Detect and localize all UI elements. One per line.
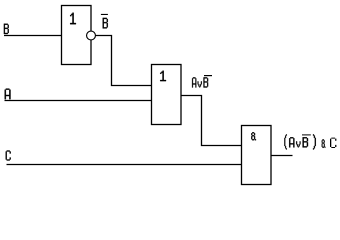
NOT gate U1 label 1 bbox=[70, 13, 76, 24]
input label B bbox=[4, 24, 9, 34]
wire A input bbox=[5, 100, 152, 102]
node Bbar label bbox=[101, 14, 108, 29]
AND gate U3 box bbox=[242, 126, 272, 185]
output label (AvBbar)&C bbox=[284, 134, 336, 149]
AND gate U3 label & bbox=[251, 132, 256, 140]
wire AvBbar from OR output to AND gate input bbox=[181, 96, 242, 146]
node AvBbar label bbox=[192, 75, 212, 88]
input label C bbox=[6, 151, 11, 161]
OR gate U2 label 1 bbox=[160, 71, 166, 81]
NOT gate U1 box bbox=[62, 6, 92, 65]
inversion bubble of U1 bbox=[87, 31, 96, 40]
OR gate U2 box bbox=[152, 65, 182, 125]
wire output of AND gate bbox=[271, 155, 293, 157]
wire Bbar from bubble to OR gate input bbox=[96, 36, 152, 86]
wire C input bbox=[7, 164, 242, 166]
wire B input bbox=[4, 35, 62, 37]
input label A bbox=[5, 89, 11, 100]
